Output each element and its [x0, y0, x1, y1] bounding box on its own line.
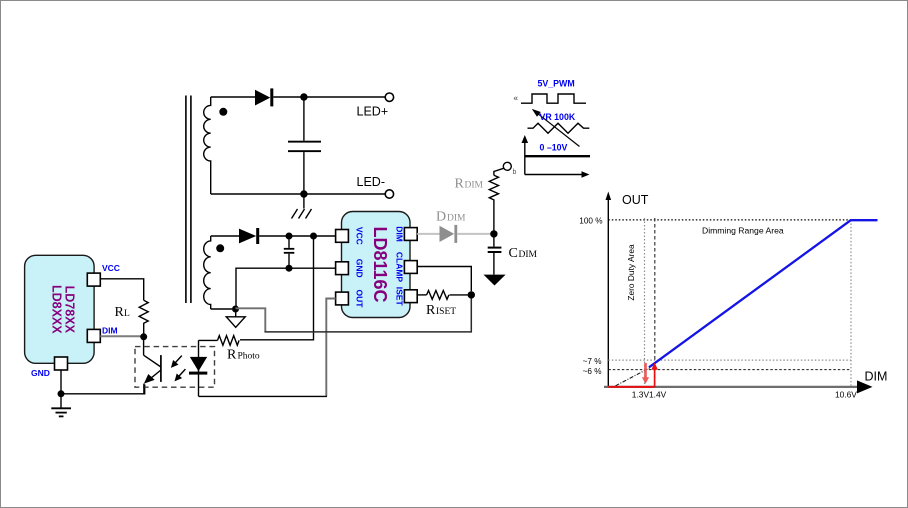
svg-text:DIM: DIM: [465, 181, 484, 191]
node winding return: [232, 306, 239, 313]
svg-text:100 %: 100 %: [579, 217, 602, 226]
wire DIM(U2) to node: [100, 335, 143, 337]
wire: [273, 96, 385, 98]
svg-text:LD8116C: LD8116C: [370, 226, 390, 302]
svg-text:VCC: VCC: [102, 263, 120, 273]
terminal LED+: [385, 93, 393, 101]
svg-text:Zero Duty Area: Zero Duty Area: [626, 244, 636, 301]
svg-text:LED-: LED-: [357, 175, 385, 189]
svg-text:R: R: [115, 305, 125, 320]
wire OUT(U1) to opto LED cathode: [326, 299, 335, 397]
svg-text:LD8XXX: LD8XXX: [49, 285, 63, 334]
secondary winding (top): [204, 97, 211, 194]
svg-text:C: C: [509, 246, 518, 261]
diode D2 (aux rectifier): [239, 228, 259, 244]
dotted 1.3V vertical: [644, 218, 646, 387]
capacitor CDIM: [488, 234, 502, 275]
ground arrow (CDIM): [484, 275, 506, 286]
pin GND (U2): [55, 357, 68, 370]
phase dot (secondary): [219, 108, 227, 116]
graph x-axis: [604, 380, 873, 393]
svg-text:~7 %: ~7 %: [583, 357, 602, 366]
node DIM filter: [490, 230, 497, 237]
wire GND(U2) down: [60, 370, 62, 397]
blue dimming curve: [649, 220, 878, 367]
wire CLAMP(U1): [417, 267, 471, 292]
svg-text:5V_PWM: 5V_PWM: [538, 79, 575, 89]
node aux cap top: [286, 233, 293, 240]
red down arrow: [642, 363, 649, 384]
wire clamp node to winding return (gray): [236, 308, 266, 332]
wire aux rail: [211, 235, 239, 237]
svg-text:~6 %: ~6 %: [583, 367, 602, 376]
svg-text:L: L: [124, 309, 130, 319]
red up arrow: [651, 363, 658, 386]
svg-text:R: R: [426, 303, 436, 318]
wire gnd to opto emitter: [61, 385, 145, 394]
svg-text:DIM: DIM: [865, 370, 888, 384]
auxiliary winding: [204, 236, 211, 309]
opto light arrows: [171, 356, 186, 382]
pin DIM (U1): [404, 228, 417, 241]
wire top rail LED+: [211, 96, 255, 98]
svg-text:10.6V: 10.6V: [835, 389, 857, 399]
svg-text:VR 100K: VR 100K: [540, 112, 576, 122]
svg-text:«: «: [514, 94, 519, 103]
svg-text:b: b: [513, 169, 517, 176]
dashed 1.4V vertical: [654, 218, 656, 387]
dotted 100% line: [608, 219, 851, 221]
node (output cap top): [300, 93, 307, 100]
svg-text:Photo: Photo: [238, 352, 260, 362]
svg-text:Dimming Range Area: Dimming Range Area: [702, 226, 784, 236]
svg-text:LD78XX: LD78XX: [62, 286, 76, 334]
dash-dot extrapolation: [616, 367, 652, 386]
node aux gnd: [286, 265, 293, 272]
dashed ~6% line: [608, 369, 851, 371]
node (output cap bottom): [300, 190, 307, 197]
node RISET/CLAMP: [468, 291, 475, 298]
small axes: [522, 135, 590, 178]
dc level line: [525, 155, 590, 157]
pwm square wave: [521, 94, 586, 103]
resistor RL: [139, 300, 148, 337]
node aux Rphoto feed: [310, 233, 317, 240]
svg-text:R: R: [227, 348, 237, 363]
node gnd: [58, 390, 65, 397]
svg-text:DIM: DIM: [102, 326, 118, 336]
opto LED: [189, 340, 207, 396]
opto phototransistor Q1: [144, 337, 161, 394]
svg-text:DIM: DIM: [447, 214, 466, 224]
dotted 10.6V vertical: [850, 220, 852, 387]
diode DDIM: [417, 225, 490, 243]
ground (output, hatched): [292, 194, 312, 219]
svg-text:VCC: VCC: [355, 227, 365, 245]
pin VCC (U1): [336, 230, 349, 243]
svg-text:LED+: LED+: [357, 105, 389, 119]
label LD78XX LD8XXX: [49, 285, 76, 334]
resistor RDIM: [489, 168, 503, 234]
IC U1 LD8116C: [342, 212, 411, 318]
wire riset node bus: [265, 295, 472, 332]
pin VCC (U2): [87, 273, 100, 286]
svg-text:ISET: ISET: [436, 307, 456, 317]
wire gnd rail to GND pin: [236, 268, 336, 309]
node RL/DIM: [140, 333, 147, 340]
wire VCC(U2) to RL: [100, 279, 143, 301]
svg-text:R: R: [455, 177, 465, 192]
wire bottom rail LED-: [211, 193, 386, 195]
wire aux winding return: [211, 308, 232, 310]
svg-text:D: D: [436, 210, 446, 225]
wire aux rail to VCC pin: [259, 235, 336, 237]
svg-text:ISET: ISET: [395, 287, 405, 307]
svg-text:OUT: OUT: [355, 290, 365, 309]
resistor RISET: [417, 291, 471, 300]
graph y-axis: [606, 192, 612, 388]
svg-text:1.3V1.4V: 1.3V1.4V: [632, 389, 667, 399]
pin DIM (U2): [87, 329, 100, 342]
capacitor C2 (vcc bypass): [284, 236, 295, 268]
svg-text:GND: GND: [31, 368, 50, 378]
svg-text:DIM: DIM: [395, 226, 405, 242]
diode D1 (output rectifier): [255, 88, 273, 106]
pin GND (U1): [336, 262, 349, 275]
optocoupler dashed box: [135, 347, 215, 388]
pin CLAMP (U1): [404, 261, 417, 274]
capacitor C1 (output): [288, 98, 321, 194]
resistor RPhoto: [199, 336, 240, 346]
svg-text:0 –10V: 0 –10V: [540, 143, 568, 153]
transformer core: [186, 96, 191, 304]
svg-text:DIM: DIM: [519, 250, 538, 260]
vr zigzag wave: [528, 123, 590, 133]
svg-text:GND: GND: [355, 259, 365, 278]
ground (U2, 3-bar): [51, 394, 71, 417]
terminal LED-: [385, 190, 393, 198]
svg-text:OUT: OUT: [622, 193, 649, 207]
IC U2 LD78XX/LD8XXX: [25, 255, 95, 363]
svg-text:CLAMP: CLAMP: [395, 252, 405, 283]
chassis arrow (aux return): [226, 317, 245, 328]
red zero segment: [608, 386, 654, 388]
pin ISET (U1): [404, 290, 417, 303]
input terminal circle: [503, 162, 511, 170]
wire vcc to Rphoto: [240, 236, 314, 340]
dotted ~7% line: [608, 359, 851, 361]
pin OUT (U1): [336, 292, 349, 305]
selector arrow: [532, 109, 580, 147]
phase dot (aux): [216, 244, 224, 252]
